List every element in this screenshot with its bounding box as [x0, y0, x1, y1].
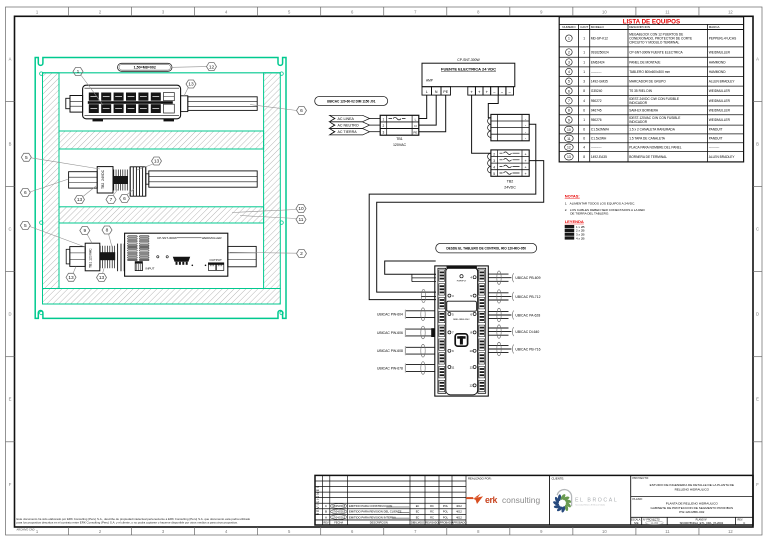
- svg-text:POL: POL: [443, 504, 449, 508]
- svg-text:8: 8: [583, 89, 585, 93]
- svg-text:ALLEN BRADLEY: ALLEN BRADLEY: [709, 79, 736, 83]
- svg-text:FUENTE ELECTRICA 24 VDC: FUENTE ELECTRICA 24 VDC: [441, 67, 496, 72]
- svg-text:11: 11: [451, 365, 454, 369]
- svg-text:F: F: [9, 482, 12, 487]
- cable PA-628: [488, 308, 540, 322]
- wire - to distribution block: [488, 95, 498, 118]
- wire split 3 top: [412, 274, 436, 296]
- svg-text:AC TIERRA: AC TIERRA: [338, 130, 358, 134]
- DIN rail 1: [188, 97, 257, 111]
- svg-text:12: 12: [728, 9, 733, 14]
- callout 2: [230, 250, 307, 258]
- callout 13: [137, 157, 162, 170]
- svg-text:UBICAC PB-716: UBICAC PB-716: [515, 347, 540, 351]
- svg-text:12: 12: [470, 384, 474, 388]
- cable PW-678: [377, 362, 435, 375]
- svg-text:8: 8: [568, 109, 570, 113]
- svg-text:MBK-JRBS-RSC: MBK-JRBS-RSC: [453, 319, 470, 321]
- svg-text:MODELO: MODELO: [591, 25, 605, 29]
- title block: [315, 475, 753, 525]
- svg-text:TB1 120VAC: TB1 120VAC: [89, 248, 93, 268]
- DIN rail 2: [149, 171, 257, 187]
- svg-text:UBICAC DI-640: UBICAC DI-640: [515, 330, 539, 334]
- svg-text:----------: ----------: [709, 145, 720, 149]
- svg-text:4 x 2B: 4 x 2B: [576, 236, 585, 240]
- cable PW-604: [377, 308, 435, 321]
- svg-text:consulting: consulting: [502, 495, 541, 505]
- svg-text:UBICAC PW-678: UBICAC PW-678: [377, 366, 403, 370]
- svg-text:B: B: [9, 141, 12, 146]
- svg-text:24VDC: 24VDC: [504, 185, 516, 189]
- svg-text:TB2 24VDC: TB2 24VDC: [101, 169, 105, 189]
- callout 6 right: [250, 105, 307, 115]
- svg-text:MD-SP-K12: MD-SP-K12: [591, 36, 608, 40]
- svg-text:INPUT: INPUT: [146, 267, 155, 271]
- svg-text:4012: 4012: [456, 515, 462, 519]
- AC source arrows: [330, 115, 381, 135]
- callout 6: [120, 189, 135, 203]
- svg-text:NOTAS:: NOTAS:: [565, 193, 580, 198]
- svg-text:9: 9: [568, 118, 570, 122]
- svg-text:DESCRIPCION: DESCRIPCION: [629, 25, 650, 29]
- svg-text:C1.5x2WH: C1.5x2WH: [591, 137, 607, 141]
- cable PB-716: [488, 342, 540, 356]
- svg-text:UBICAC PW-604: UBICAC PW-604: [377, 313, 403, 317]
- svg-text:CLIENTE:: CLIENTE:: [552, 476, 565, 480]
- DIN rail 3 right stub: [228, 246, 256, 266]
- DIN rail 3 assembly: [66, 243, 124, 271]
- svg-text:6: 6: [300, 108, 303, 114]
- svg-text:EC: EC: [416, 510, 420, 514]
- svg-text:11: 11: [665, 9, 670, 14]
- svg-text:WEIDMULLER: WEIDMULLER: [709, 109, 731, 113]
- svg-text:8: 8: [106, 228, 109, 234]
- svg-text:6: 6: [583, 109, 585, 113]
- svg-text:7: 7: [110, 197, 113, 203]
- svg-text:WEIDMULLER: WEIDMULLER: [709, 89, 731, 93]
- wire plus bus to megablock: [377, 161, 544, 293]
- svg-text:1: 1: [583, 36, 585, 40]
- svg-text:PW-120-MBK-002: PW-120-MBK-002: [679, 510, 704, 514]
- svg-text:RELLENO HIDRAULICO: RELLENO HIDRAULICO: [675, 488, 710, 492]
- svg-text:1: 1: [583, 60, 585, 64]
- svg-text:EL BROCAL: EL BROCAL: [575, 498, 618, 504]
- svg-text:WEIDMULLER: WEIDMULLER: [709, 99, 731, 103]
- svg-text:+: +: [525, 152, 527, 156]
- svg-text:8: 8: [583, 155, 585, 159]
- callout 13: [184, 80, 196, 96]
- cable PB-609: [488, 271, 540, 285]
- svg-text:UBICAC PW-608: UBICAC PW-608: [377, 349, 403, 353]
- svg-text:MARCA: MARCA: [709, 25, 720, 29]
- cable PW-606: [377, 326, 435, 339]
- svg-text:N: N: [435, 90, 438, 94]
- svg-text:SK000786RLA_ETL_DRL_PL2002: SK000786RLA_ETL_DRL_PL2002: [680, 521, 724, 525]
- wire minus bus to megablock: [369, 124, 536, 299]
- svg-text:INDICADOR: INDICADOR: [629, 120, 648, 124]
- svg-text:+: +: [525, 166, 527, 170]
- svg-text:E: E: [9, 397, 12, 402]
- svg-text:17/04/2015: 17/04/2015: [332, 515, 346, 519]
- svg-text:PE: PE: [413, 131, 417, 135]
- svg-text:4: 4: [568, 70, 570, 74]
- svg-text:----------: ----------: [591, 145, 602, 149]
- svg-text:SAM-EX BORNERA: SAM-EX BORNERA: [629, 109, 659, 113]
- svg-text:C: C: [756, 227, 759, 232]
- svg-text:3: 3: [568, 60, 570, 64]
- svg-text:11: 11: [665, 529, 670, 534]
- svg-text:6: 6: [583, 137, 585, 141]
- svg-text:WEIDMULLER: WEIDMULLER: [709, 50, 731, 54]
- callout 7: [106, 188, 119, 204]
- svg-text:B: B: [756, 141, 759, 146]
- svg-text:AC LINEA: AC LINEA: [338, 117, 355, 121]
- svg-text:950276: 950276: [591, 118, 602, 122]
- svg-text:BORNERA DE TERMINAL: BORNERA DE TERMINAL: [629, 155, 667, 159]
- svg-text:2: 2: [383, 124, 385, 128]
- svg-text:10: 10: [602, 529, 607, 534]
- svg-text:PANDUIT: PANDUIT: [709, 128, 723, 132]
- tag tablero oval: [436, 243, 537, 253]
- svg-text:APROBADO: APROBADO: [438, 521, 453, 525]
- svg-text:erk: erk: [485, 495, 498, 505]
- svg-text:ARCHIVO CAD: ARCHIVO CAD: [17, 528, 35, 532]
- svg-text:EMITIDO PARA CONSTRUCCION: EMITIDO PARA CONSTRUCCION: [349, 504, 392, 508]
- callout 12: [207, 63, 217, 71]
- svg-text:POL: POL: [443, 510, 449, 514]
- svg-text:2: 2: [300, 251, 303, 257]
- svg-text:C: C: [743, 521, 745, 525]
- svg-text:10: 10: [470, 349, 474, 353]
- svg-text:APROBADO: APROBADO: [452, 521, 467, 525]
- svg-text:CP-SNT-300W FUENTE ELECTRICA: CP-SNT-300W FUENTE ELECTRICA: [629, 50, 683, 54]
- svg-text:UBICAC 120-60-02 DIM 1150: UBICAC 120-60-02 DIM 1150 J01: [327, 99, 376, 103]
- svg-text:1: 1: [583, 118, 585, 122]
- svg-text:1492-GM35: 1492-GM35: [591, 79, 608, 83]
- svg-text:----------: ----------: [591, 70, 602, 74]
- svg-text:11: 11: [567, 137, 571, 141]
- svg-text:1.5 x 2 CANALETA RANURADA: 1.5 x 2 CANALETA RANURADA: [629, 128, 676, 132]
- svg-text:N: N: [414, 124, 416, 128]
- BOM table LISTA DE EQUIPOS: [559, 17, 743, 162]
- svg-text:120VAC: 120VAC: [393, 143, 407, 147]
- svg-text:DE TIERRA DEL TABLERO.: DE TIERRA DEL TABLERO.: [570, 211, 609, 215]
- svg-text:TS 35 RIEL DIN: TS 35 RIEL DIN: [629, 89, 652, 93]
- svg-text:S/E: S/E: [634, 521, 639, 525]
- svg-text:6: 6: [24, 190, 27, 196]
- svg-text:AC NEUTRO: AC NEUTRO: [338, 124, 359, 128]
- svg-text:A: A: [756, 56, 759, 61]
- svg-text:F: F: [756, 482, 759, 487]
- svg-text:046745: 046745: [591, 109, 602, 113]
- svg-text:REVISADO: REVISADO: [425, 521, 438, 525]
- svg-text:EMITIDO PARA REVISION DEL CLIE: EMITIDO PARA REVISION DEL CLIENTE: [349, 510, 402, 514]
- svg-text:FECHA: FECHA: [334, 521, 343, 525]
- svg-text:REALIZADO POR:: REALIZADO POR:: [468, 476, 492, 480]
- svg-text:RC: RC: [430, 515, 434, 519]
- callout 6: [20, 179, 68, 197]
- svg-text:1.5 TAPA DE CANALETA: 1.5 TAPA DE CANALETA: [629, 137, 666, 141]
- wire L-N-PE to TB1: [419, 95, 446, 132]
- svg-text:13: 13: [567, 155, 571, 159]
- svg-text:3: 3: [583, 79, 585, 83]
- power supply schematic box U-PSU: [422, 58, 515, 95]
- svg-text:1: 1: [568, 37, 570, 41]
- DIN rail 2 assembly: [69, 167, 258, 197]
- svg-text:E: E: [756, 397, 759, 402]
- svg-text:POL: POL: [443, 515, 449, 519]
- svg-text:EM62424: EM62424: [591, 60, 605, 64]
- svg-text:CP-SNT-300W: CP-SNT-300W: [157, 236, 177, 240]
- svg-text:13: 13: [77, 197, 83, 203]
- svg-text:TABLERO 800x600x300 mm: TABLERO 800x600x300 mm: [629, 70, 670, 74]
- svg-text:PANEL DE MONTAJE: PANEL DE MONTAJE: [629, 60, 660, 64]
- project info cells: [631, 476, 753, 525]
- svg-text:27/04/2015: 27/04/2015: [332, 510, 346, 514]
- callout 5: [21, 153, 100, 169]
- logo EL BROCAL: [552, 490, 618, 513]
- svg-text:A: A: [325, 515, 327, 519]
- svg-text:EMITIDO PARA REVISION INTERNA: EMITIDO PARA REVISION INTERNA: [349, 515, 396, 519]
- terminal block TB2 24VDC: [488, 150, 530, 190]
- svg-text:C1.5x2MWH: C1.5x2MWH: [591, 128, 610, 132]
- wire shield to megablock: [385, 261, 436, 274]
- callout 1: [73, 68, 103, 106]
- svg-text:OUTPUT: OUTPUT: [210, 258, 223, 262]
- svg-text:D: D: [8, 312, 11, 317]
- svg-text:12: 12: [728, 529, 733, 534]
- svg-text:13: 13: [68, 275, 74, 281]
- megablock device on DIN rail 1: [66, 85, 257, 121]
- svg-text:1. ALIMENTAR TODOS LOS EQUIP: 1. ALIMENTAR TODOS LOS EQUIPOS A 24VDC.: [565, 202, 636, 206]
- svg-text:4: 4: [493, 166, 495, 170]
- svg-text:PLANO:: PLANO:: [633, 497, 643, 501]
- notes NOTAS: [565, 193, 646, 215]
- svg-text:PROYECTO:: PROYECTO:: [633, 476, 650, 480]
- svg-text:DIBUJADO: DIBUJADO: [411, 521, 424, 525]
- svg-text:12: 12: [209, 64, 215, 70]
- svg-text:4012: 4012: [456, 510, 462, 514]
- svg-text:3: 3: [493, 159, 495, 163]
- svg-text:MARCADOR DE GRUPO: MARCADOR DE GRUPO: [629, 79, 666, 83]
- svg-text:4: 4: [583, 99, 585, 103]
- svg-text:TB1: TB1: [396, 137, 403, 141]
- svg-text:UBICAC PW-606: UBICAC PW-606: [377, 331, 403, 335]
- svg-text:1: 1: [583, 50, 585, 54]
- callout 5: [20, 222, 85, 248]
- svg-text:10: 10: [298, 206, 304, 212]
- svg-text:14-056: 14-056: [651, 522, 659, 525]
- svg-text:5: 5: [24, 223, 27, 229]
- svg-text:13: 13: [188, 82, 194, 88]
- svg-text:2: 2: [493, 152, 495, 156]
- svg-text:2: 2: [568, 50, 570, 54]
- callout 9: [80, 227, 92, 244]
- tag 1,50=M8=002: [118, 63, 207, 71]
- disclaimer text: [17, 517, 251, 532]
- logo erk consulting: [466, 494, 540, 506]
- svg-text:CIRCUITO Y MODULO TERMINAL: CIRCUITO Y MODULO TERMINAL: [629, 40, 679, 44]
- svg-text:LEYENDA: LEYENDA: [565, 219, 584, 224]
- callout 8: [102, 226, 112, 247]
- svg-text:RC: RC: [430, 510, 434, 514]
- svg-text:9: 9: [83, 228, 86, 234]
- svg-text:11: 11: [470, 365, 473, 369]
- svg-text:1: 1: [77, 69, 80, 75]
- svg-text:ESTUDIO DE INGENIERIA DE DETAL: ESTUDIO DE INGENIERIA DE DETALLE DE LA P…: [650, 483, 734, 487]
- svg-text:+: +: [525, 159, 527, 163]
- svg-text:WEIDMULLER: WEIDMULLER: [202, 236, 223, 240]
- panel enclosure (green): [35, 58, 286, 319]
- svg-text:10: 10: [602, 9, 607, 14]
- svg-text:Sociedad Minera El Brocal S.A.: Sociedad Minera El Brocal S.A.A.: [575, 503, 605, 506]
- svg-text:D: D: [756, 312, 759, 317]
- cable PW-608: [377, 344, 435, 357]
- callout 13: [66, 267, 76, 282]
- svg-text:6: 6: [583, 128, 585, 132]
- svg-text:A: A: [9, 56, 12, 61]
- svg-text:13: 13: [99, 275, 105, 281]
- revision table: [315, 480, 466, 482]
- svg-text:CANT: CANT: [580, 25, 588, 29]
- cable PB-712: [488, 290, 540, 304]
- svg-text:AMP: AMP: [426, 79, 433, 83]
- svg-text:10: 10: [567, 128, 571, 132]
- svg-text:para los propositos descritos: para los propositos descritos en el cont…: [17, 521, 238, 525]
- svg-text:EC: EC: [416, 504, 420, 508]
- wire + to TB2: [472, 95, 491, 153]
- callout 10: [232, 205, 306, 213]
- terminal block TB1 120VAC: [380, 115, 419, 147]
- svg-text:5: 5: [493, 172, 495, 176]
- svg-text:4: 4: [583, 145, 585, 149]
- svg-text:WEIDMULLER: WEIDMULLER: [709, 118, 731, 122]
- cable bundle ellipse: [421, 289, 425, 302]
- cable tag UBICAC: [315, 97, 388, 106]
- svg-text:DESCRIPCION: DESCRIPCION: [370, 521, 388, 525]
- svg-text:6: 6: [123, 196, 126, 202]
- svg-text:C: C: [8, 227, 11, 232]
- svg-text:NUMERO: NUMERO: [562, 25, 576, 29]
- svg-text:11: 11: [299, 217, 304, 223]
- svg-text:B: B: [325, 510, 327, 514]
- callout 13: [97, 269, 107, 282]
- svg-text:ALLEN BRADLEY: ALLEN BRADLEY: [709, 155, 736, 159]
- power supply CP-SNT-300W: [125, 233, 257, 276]
- svg-text:INDICADOR: INDICADOR: [629, 101, 648, 105]
- svg-text:TB2: TB2: [507, 179, 514, 183]
- distribution block 24VDC minus: [488, 114, 530, 140]
- svg-text:HAMMOND: HAMMOND: [709, 60, 727, 64]
- svg-text:PE: PE: [443, 90, 448, 94]
- svg-text:UBICAC PB-712: UBICAC PB-712: [515, 295, 540, 299]
- svg-text:0916250024: 0916250024: [591, 50, 609, 54]
- svg-text:1: 1: [583, 70, 585, 74]
- svg-text:PEPPERL+FUCHS: PEPPERL+FUCHS: [709, 36, 737, 40]
- megablock MD-SP-K12 schematic: [431, 266, 488, 396]
- svg-text:REVISIONES: REVISIONES: [316, 485, 320, 516]
- svg-text:UBICAC PB-609: UBICAC PB-609: [515, 276, 540, 280]
- svg-text:HAMMOND: HAMMOND: [709, 70, 727, 74]
- svg-text:RC: RC: [430, 504, 434, 508]
- svg-text:+: +: [525, 172, 527, 176]
- svg-text:950272: 950272: [591, 99, 602, 103]
- svg-text:DESDE EL TABLERO DE CONTROL RI: DESDE EL TABLERO DE CONTROL RIO 120-RIO-…: [446, 246, 526, 250]
- svg-text:PLACA PARA NOMBRE DEL PANEL: PLACA PARA NOMBRE DEL PANEL: [629, 145, 682, 149]
- svg-text:18/05/2015: 18/05/2015: [332, 504, 346, 508]
- svg-text:PWR/FLT: PWR/FLT: [457, 280, 467, 282]
- callout 13: [75, 186, 97, 204]
- svg-text:13: 13: [154, 159, 160, 165]
- svg-text:1: 1: [383, 118, 385, 122]
- svg-text:CP-SNT-300W: CP-SNT-300W: [457, 58, 480, 62]
- svg-text:GABINETE DE PROTECCION DE SEGM: GABINETE DE PROTECCION DE SEGMENTO PROFI…: [650, 506, 733, 510]
- svg-text:7: 7: [568, 99, 570, 103]
- svg-text:4012: 4012: [456, 504, 462, 508]
- svg-text:5: 5: [25, 155, 28, 161]
- svg-text:5: 5: [568, 80, 570, 84]
- svg-text:EC: EC: [416, 515, 420, 519]
- svg-text:1,50=M8=002: 1,50=M8=002: [134, 66, 156, 70]
- svg-text:UBICAC PA-628: UBICAC PA-628: [515, 313, 540, 317]
- svg-text:G35240: G35240: [591, 89, 603, 93]
- legend LEYENDA: [565, 219, 585, 241]
- svg-text:L: L: [426, 90, 428, 94]
- svg-text:PANDUIT: PANDUIT: [709, 137, 723, 141]
- svg-text:6: 6: [568, 89, 570, 93]
- callout 11: [240, 216, 306, 224]
- svg-text:12: 12: [567, 146, 571, 150]
- svg-text:REV: REV: [323, 521, 329, 525]
- svg-text:3: 3: [383, 131, 385, 135]
- svg-text:1492-EA35: 1492-EA35: [591, 155, 607, 159]
- cable DI-640: [488, 325, 539, 339]
- svg-text:PLANTA DE RELLENO HIDRAULICO: PLANTA DE RELLENO HIDRAULICO: [666, 501, 719, 505]
